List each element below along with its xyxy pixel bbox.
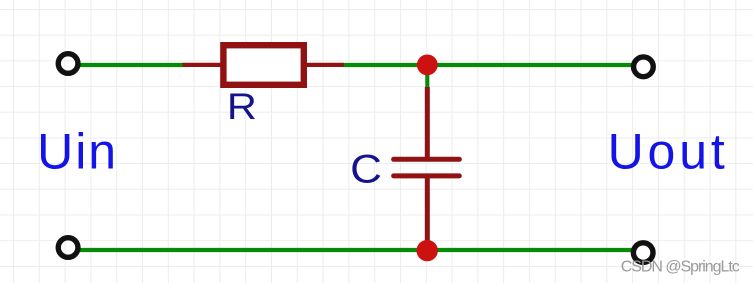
capacitor C bottom pin (dark red)	[425, 176, 430, 244]
resistor R body	[223, 45, 303, 85]
capacitor C top plate	[394, 157, 460, 162]
svg-text:CSDN @SpringLtc: CSDN @SpringLtc	[621, 259, 740, 276]
terminal: bottom-left open pin circle	[58, 238, 78, 258]
wire: top net R-to-Uout through junction (green)	[344, 63, 632, 67]
terminal: top-right open pin circle	[634, 57, 654, 77]
svg-text:R: R	[227, 86, 257, 127]
svg-text:Uin: Uin	[37, 123, 118, 179]
svg-text:Uout: Uout	[608, 123, 729, 179]
wire: bottom return net (green)	[79, 248, 632, 252]
resistor R1 right pin	[306, 63, 344, 67]
wire: top net Uin-to-R (green)	[79, 63, 183, 67]
svg-text:C: C	[350, 147, 382, 191]
junction node: bottom (red dot)	[417, 240, 438, 261]
resistor R1 left pin	[183, 63, 221, 67]
capacitor C bottom plate	[394, 173, 460, 178]
terminal: bottom-right open pin circle	[633, 243, 653, 263]
wire: vertical stub from top junction to C (green)	[425, 65, 429, 89]
capacitor C top pin (dark red)	[425, 87, 430, 159]
junction node: top (red dot)	[417, 55, 438, 76]
terminal: top-left open pin circle	[58, 54, 78, 74]
